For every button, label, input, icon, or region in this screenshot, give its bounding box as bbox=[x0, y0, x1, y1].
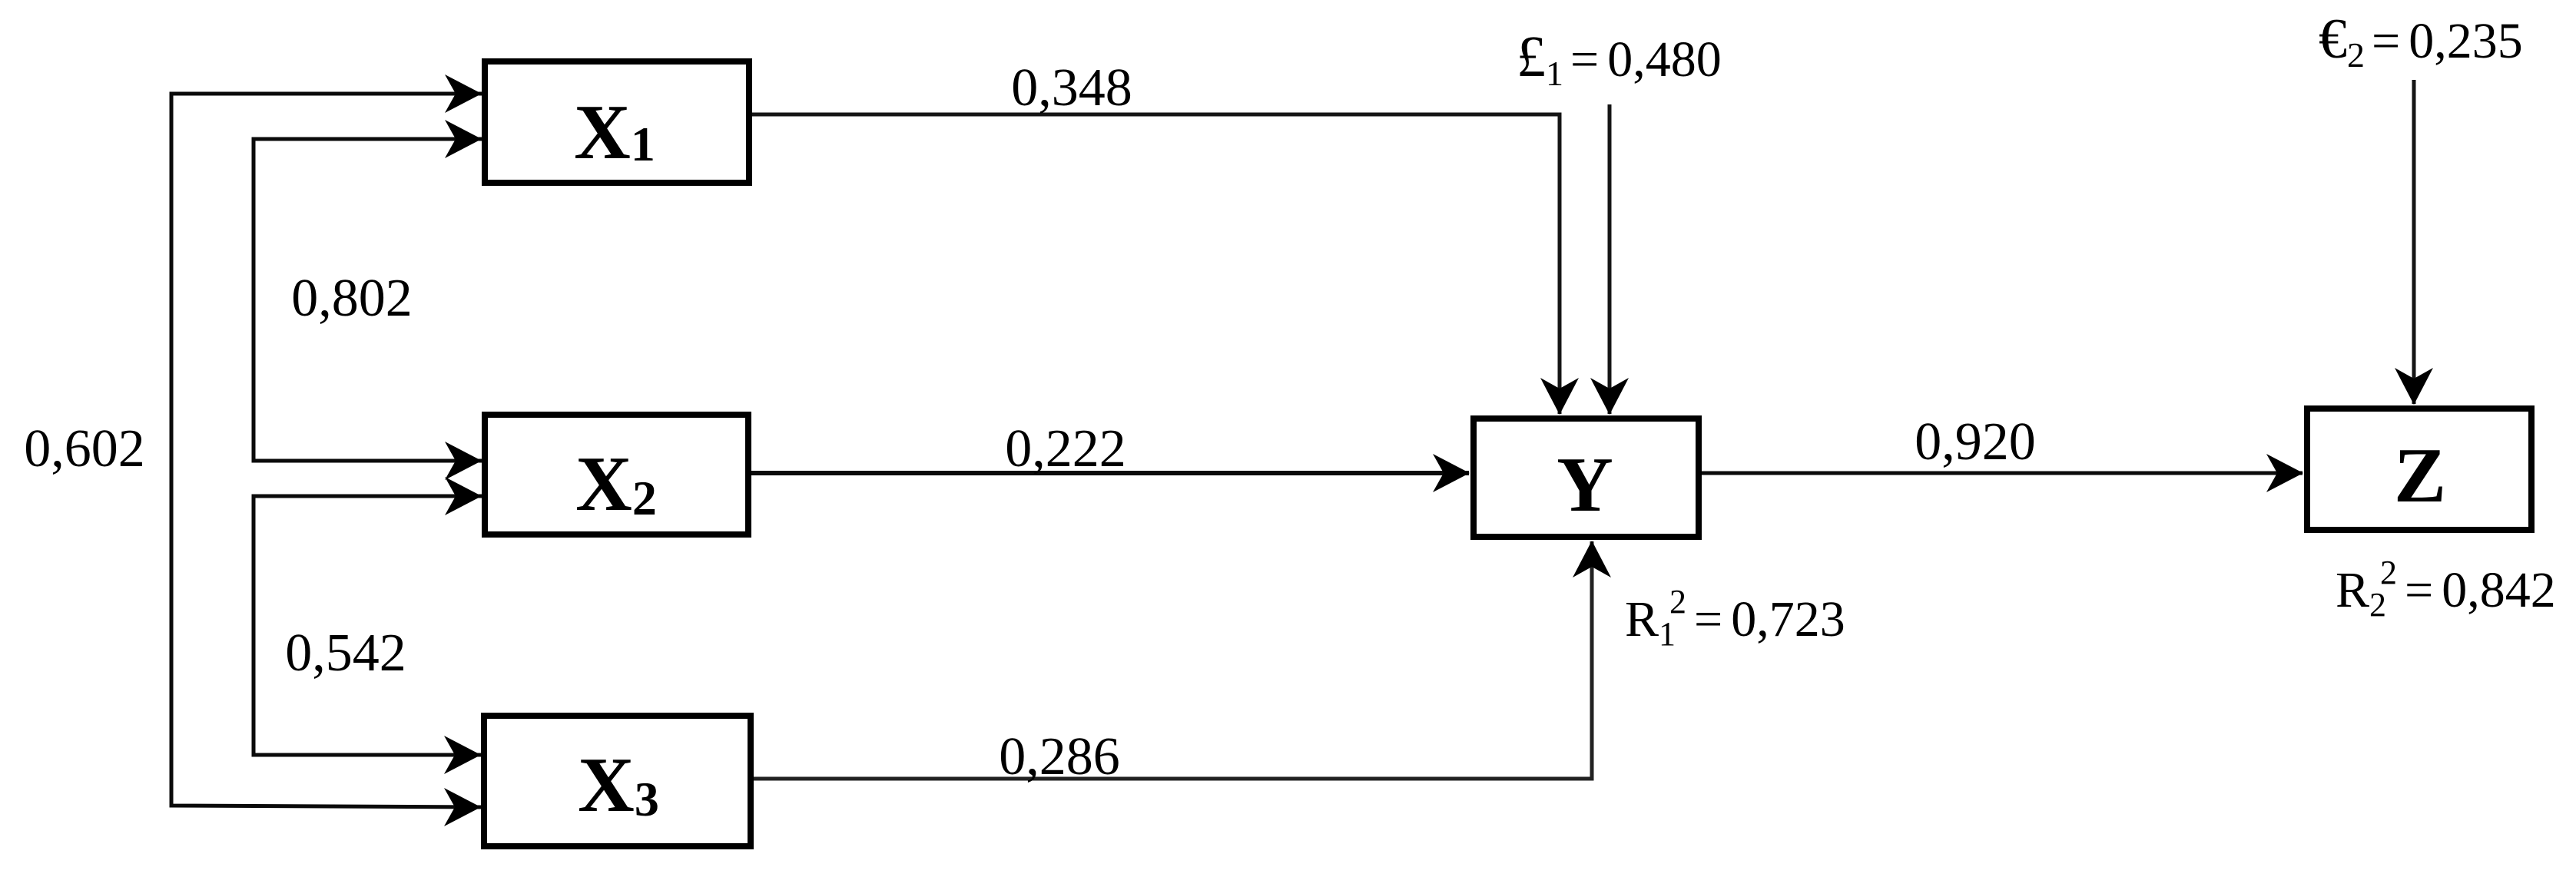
wire path X3 to Y via R1 (0,286) bbox=[754, 541, 1592, 779]
wire path Y to Z (0,920) bbox=[1702, 472, 2302, 475]
wire path X1 to Y (0,348) bbox=[752, 114, 1560, 414]
svg-text:Z: Z bbox=[2394, 432, 2446, 519]
arrowhead into Y left bbox=[1433, 454, 1470, 492]
svg-text:€2=0,235: €2=0,235 bbox=[2319, 8, 2523, 74]
arrowhead into X1 upper bbox=[445, 74, 482, 113]
svg-text:Y: Y bbox=[1557, 442, 1613, 528]
svg-text:0,286: 0,286 bbox=[999, 727, 1120, 786]
svg-text:0,602: 0,602 bbox=[24, 419, 145, 478]
svg-text:0,222: 0,222 bbox=[1005, 419, 1126, 478]
arrowhead into X2 lower bbox=[445, 477, 482, 515]
arrowhead into Y bottom from R1 bbox=[1573, 541, 1611, 577]
svg-text:0,802: 0,802 bbox=[291, 269, 413, 328]
svg-text:0,920: 0,920 bbox=[1915, 412, 2036, 472]
svg-text:0,542: 0,542 bbox=[285, 624, 406, 683]
box X1 bbox=[485, 61, 749, 183]
wire path X2 to Y (0,222) bbox=[751, 471, 1469, 475]
wire error term e1 into Y bbox=[1608, 104, 1612, 414]
arrowhead into X3 upper bbox=[444, 736, 481, 774]
box Z bbox=[2307, 409, 2531, 530]
arrowhead into Y top from 0,348 bbox=[1540, 378, 1579, 415]
arrowhead into Y top from e1 bbox=[1590, 378, 1629, 415]
wire 0,542 connector X2-X3 bbox=[254, 496, 482, 755]
svg-text:0,348: 0,348 bbox=[1011, 58, 1132, 117]
svg-text:£1=0,480: £1=0,480 bbox=[1517, 25, 1722, 93]
wire 0,802 connector X1-X2 bbox=[254, 139, 482, 461]
svg-text:R12=0,723: R12=0,723 bbox=[1625, 583, 1845, 653]
arrowhead into Z left bbox=[2266, 454, 2303, 492]
svg-text:R22=0,842: R22=0,842 bbox=[2336, 554, 2556, 624]
wire error term e2 into Z bbox=[2412, 80, 2416, 404]
box X3 bbox=[484, 716, 751, 846]
box Y bbox=[1474, 419, 1699, 537]
arrowhead into X2 upper bbox=[445, 442, 482, 480]
arrowhead into Z top bbox=[2395, 368, 2433, 405]
arrowhead into X1 lower bbox=[445, 120, 482, 158]
box X2 bbox=[485, 415, 748, 534]
wire 0,602 connector X1-X3 bbox=[171, 94, 482, 807]
arrowhead into X3 lower bbox=[444, 788, 481, 826]
